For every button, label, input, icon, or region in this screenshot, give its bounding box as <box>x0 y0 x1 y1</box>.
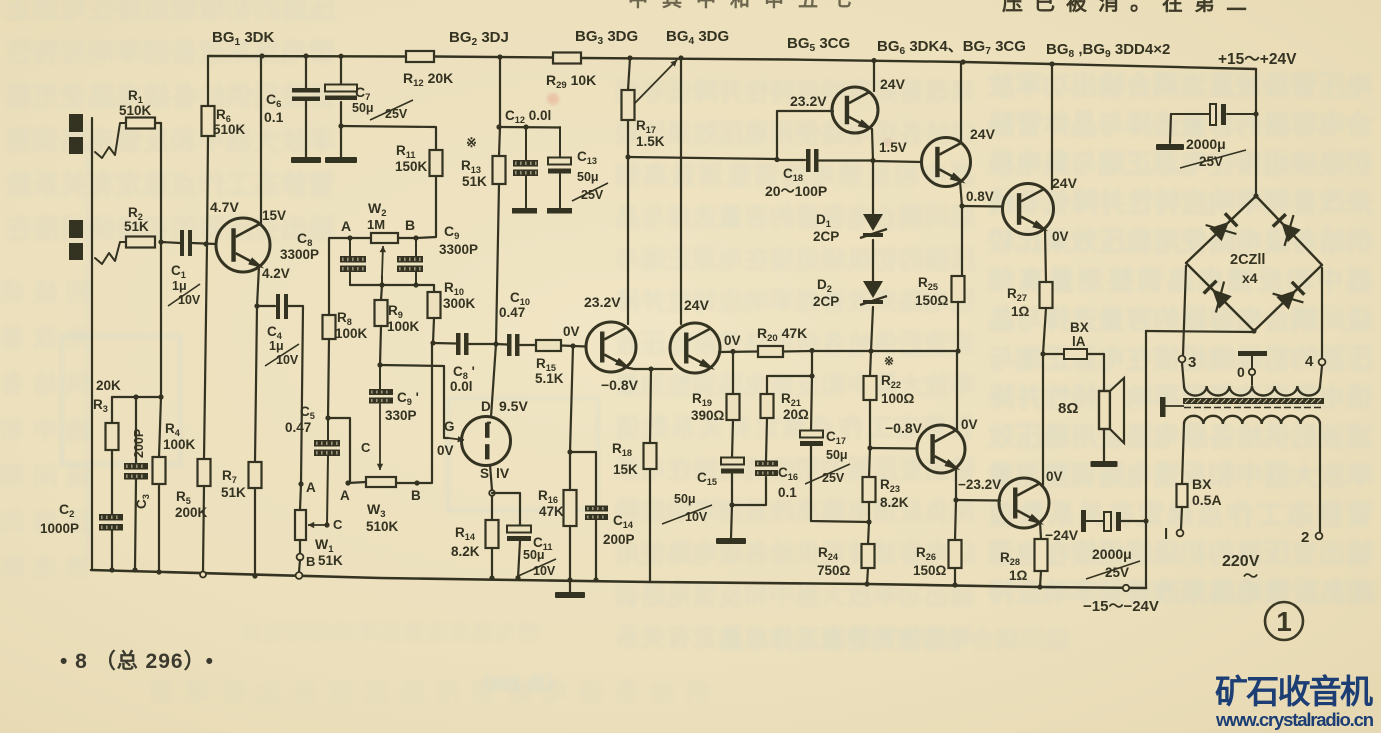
slash 2000u lower <box>1086 561 1140 579</box>
wire R20 left <box>783 350 812 353</box>
svg-text:10V: 10V <box>533 564 556 578</box>
junction C9 bottom <box>413 282 418 287</box>
capacitor C11 plate2 <box>507 536 531 541</box>
svg-text:20Ω: 20Ω <box>783 407 809 422</box>
wire D2 node to R22 <box>870 351 871 376</box>
svg-text:3: 3 <box>1188 354 1196 371</box>
capacitor C12 <box>525 127 527 161</box>
terminal 1 <box>1177 530 1184 537</box>
junction W2 A <box>347 235 352 240</box>
wire R1-R2 junction column <box>160 123 162 242</box>
svg-text:级间耦: 级间耦 <box>0 462 90 490</box>
junction C3 <box>133 394 138 399</box>
slash C11 <box>516 559 556 577</box>
wire C2 to bus <box>111 530 113 570</box>
wire R25 to node <box>957 302 959 351</box>
junction rail-C7 <box>338 54 343 59</box>
wire BG3 base node down to R16 <box>570 346 573 452</box>
svg-text:51K: 51K <box>318 553 343 568</box>
ground C7 <box>325 157 357 163</box>
capacitor C17 plate2 <box>800 441 823 446</box>
svg-text:25V: 25V <box>1105 565 1129 580</box>
wire R17 node to C18 node <box>628 157 777 159</box>
svg-text:B: B <box>411 488 421 503</box>
wire neg column <box>1145 331 1147 588</box>
junction R14 bus <box>489 575 494 580</box>
wire emitter to R7 <box>255 306 257 462</box>
junction R24 rail <box>864 581 869 586</box>
resistor R15 <box>536 340 561 351</box>
wire C12 C13 top line <box>499 126 560 129</box>
wire W3 B lead <box>396 482 417 484</box>
junction rail-BG4 <box>678 55 683 60</box>
transistor BG6 <box>922 138 971 187</box>
capacitor C14 plate1 <box>585 506 608 512</box>
wire bridge right to terminal 4 <box>1321 268 1323 358</box>
wire R28 to neg rail <box>1040 571 1041 587</box>
resistor R12 <box>406 51 434 62</box>
wire to R16 <box>569 452 571 490</box>
resistor R4 <box>153 457 166 484</box>
wire terminal 4 to coil <box>1320 366 1322 386</box>
potentiometer W3 <box>366 477 396 487</box>
fuse BX 1A <box>1064 349 1087 359</box>
wire 1.5V node to BG6 base <box>873 161 922 162</box>
wire rail to bridge top <box>1255 69 1257 196</box>
junction C15 C16 gnd <box>729 502 734 507</box>
svg-text:0V: 0V <box>724 333 741 348</box>
wire W2 B lead <box>398 237 416 239</box>
svg-text:率放大器中和反馈电路调整: 率放大器中和反馈电路调整 <box>5 125 335 156</box>
resistor R6 <box>202 106 215 136</box>
wire C7 node to R11 <box>341 126 436 150</box>
diode D2 <box>863 281 883 298</box>
wire BG8 collector to rail <box>1051 64 1053 189</box>
svg-text:100Ω: 100Ω <box>881 391 915 406</box>
resistor R20 <box>758 346 783 357</box>
svg-text:S: S <box>480 466 489 481</box>
svg-text:D: D <box>481 399 491 414</box>
wire C5 node to W3 A <box>328 418 350 483</box>
wire W2 A lead <box>350 237 371 239</box>
svg-text:BX: BX <box>1070 320 1089 335</box>
wire BG6 collector to rail <box>960 62 962 143</box>
svg-text:51K: 51K <box>462 174 487 189</box>
svg-text:级间耦合电容器的容量选择与晶: 级间耦合电容器的容量选择与晶 <box>720 626 1070 654</box>
terminal R5 bus <box>200 572 206 578</box>
wire fuse to terminal 1 <box>1181 507 1182 529</box>
capacitor C18 trimmer <box>806 149 811 172</box>
ground center tap bar <box>1238 351 1267 356</box>
svg-text:0V: 0V <box>1052 229 1069 244</box>
wire W1 A lead <box>300 484 301 510</box>
svg-text:（总 296）: （总 296） <box>471 672 565 695</box>
capacitor C2 <box>99 514 123 521</box>
svg-text:2CP: 2CP <box>813 294 839 309</box>
resistor R7 <box>249 462 262 488</box>
slash C13 <box>572 183 608 201</box>
capacitor C8' <box>456 333 461 355</box>
svg-text:x4: x4 <box>1242 270 1258 286</box>
wire R26 to neg rail <box>954 568 956 585</box>
wire primary right down <box>1319 424 1321 532</box>
wire C14 to bus <box>595 520 597 580</box>
svg-text:25V: 25V <box>385 107 408 121</box>
transistor BG8 <box>1003 184 1054 235</box>
junction 1.5V node <box>870 158 875 163</box>
resistor R29 <box>553 53 581 64</box>
wire to R18 <box>650 369 651 443</box>
junction C7 R11 line <box>338 123 343 128</box>
svg-text:15K: 15K <box>613 462 638 477</box>
terminal 2 <box>1316 533 1323 540</box>
wire to BG8 base <box>962 205 1003 208</box>
junction R22 R23 base <box>867 445 872 450</box>
core end bar <box>1160 397 1166 417</box>
svg-text:150Ω: 150Ω <box>915 293 949 308</box>
ground speaker <box>1091 461 1118 467</box>
svg-text:※: ※ <box>466 135 477 150</box>
svg-text:2CZll: 2CZll <box>1230 252 1265 268</box>
svg-text:中其中和申五七: 中其中和申五七 <box>628 0 866 11</box>
junction rail-BG1 collector <box>259 53 264 58</box>
transistor BG7 <box>917 425 965 473</box>
wire ground bus bottom <box>91 570 1146 588</box>
capacitor C3 <box>124 463 148 470</box>
transformer secondary coil <box>1184 386 1320 396</box>
potentiometer R17 wiper arrow <box>634 60 677 104</box>
bleedthrough figure box <box>62 120 598 560</box>
wire rail to C6 <box>305 56 307 89</box>
svg-text:24V: 24V <box>684 297 710 313</box>
junction C17 R21 <box>809 373 814 378</box>
wire rail to C7 <box>340 56 342 85</box>
svg-text:1M: 1M <box>367 217 385 232</box>
junction R23 C17 R24 <box>866 519 871 524</box>
svg-text:23.2V: 23.2V <box>790 93 827 109</box>
terminal neg rail <box>1123 585 1129 591</box>
junction C3 bus <box>132 567 137 572</box>
svg-text:−23.2V: −23.2V <box>958 477 1001 492</box>
junction base R6 <box>203 241 208 246</box>
svg-text:50μ: 50μ <box>577 170 599 184</box>
junction W2 B <box>413 235 418 240</box>
svg-text:51K: 51K <box>124 219 149 234</box>
junction rail-BG8 <box>1049 61 1054 66</box>
svg-text:47K: 47K <box>539 504 564 519</box>
svg-text:24V: 24V <box>1052 175 1078 191</box>
transformer core <box>1183 398 1324 404</box>
wire D2 to R22 node <box>871 307 873 351</box>
terminal 4 <box>1319 359 1326 366</box>
wire to C18 <box>777 159 805 161</box>
svg-text:50μ: 50μ <box>523 548 545 562</box>
capacitor C16 plate2 <box>755 461 778 467</box>
wire C17 to R23 bottom <box>811 446 869 522</box>
svg-text:馈电路来改善频率响应特性并: 馈电路来改善频率响应特性并 <box>240 620 540 645</box>
potentiometer W2 <box>371 233 398 243</box>
junction R10 C8p W3B <box>430 340 435 345</box>
potentiometer W1 <box>295 510 306 540</box>
svg-text:初级绕组接在电源正端与集电极: 初级绕组接在电源正端与集电极 <box>988 148 1373 179</box>
svg-text:BG3 3DG: BG3 3DG <box>575 28 638 47</box>
wire input shield to ground bus <box>91 118 93 570</box>
svg-text:0V: 0V <box>961 417 978 432</box>
svg-text:9.5V: 9.5V <box>499 398 528 414</box>
capacitor C6 plate1 <box>292 88 320 93</box>
wire R4 to bus <box>158 484 160 572</box>
capacitor C9' <box>379 365 381 389</box>
junction W3 A <box>345 480 350 485</box>
terminal W1 B bus <box>296 572 303 579</box>
svg-text:来改善: 来改善 <box>0 324 90 352</box>
junction source node <box>489 490 495 496</box>
potentiometer W1 wiper arrow <box>308 524 327 526</box>
junction R16 bus <box>567 577 572 582</box>
svg-text:• 8 （总 296）•: • 8 （总 296）• <box>60 649 214 673</box>
junction emitter R18 <box>648 366 653 371</box>
slash C17 <box>805 464 850 484</box>
junction R8 C5 W3A <box>325 415 330 420</box>
svg-text:20K: 20K <box>96 378 121 393</box>
resistor R18 <box>644 443 657 469</box>
svg-text:1: 1 <box>1276 606 1292 637</box>
svg-text:0.1: 0.1 <box>264 109 284 125</box>
junction R26 rail <box>952 582 957 587</box>
svg-text:0.47: 0.47 <box>499 305 525 320</box>
wire C8p to drain node <box>469 343 496 345</box>
transistor BG1 <box>216 218 270 272</box>
capacitor C17 plate1 <box>800 431 823 438</box>
wire BG7 emitter up to R25 node <box>956 352 958 430</box>
svg-text:1Ω: 1Ω <box>1011 304 1030 319</box>
junction rail-BG5 <box>871 58 876 63</box>
junction W1 A <box>298 481 303 486</box>
svg-text:200K: 200K <box>175 505 208 520</box>
svg-text:50μ: 50μ <box>352 101 374 115</box>
svg-text:20～100P: 20～100P <box>765 183 827 199</box>
wire feedback top line <box>112 396 161 398</box>
svg-text:G: G <box>444 419 455 434</box>
svg-text:压器的初级绕组接在电源正端与: 压器的初级绕组接在电源正端与 <box>615 245 975 274</box>
ground C15 <box>716 538 746 544</box>
svg-text:1.5V: 1.5V <box>879 140 907 155</box>
junction BG7 collector R26 BG9 base <box>953 497 958 502</box>
junction C12 <box>523 124 528 129</box>
capacitor C4 <box>276 294 280 319</box>
wire FET source down <box>490 465 492 490</box>
input jack J1 <box>69 114 83 132</box>
diode bridge TR <box>1281 223 1300 243</box>
wire C4 to W1 A <box>288 306 303 484</box>
resistor R23 <box>863 477 876 502</box>
wire C10 to R15 <box>520 344 536 346</box>
wire to R13 <box>499 127 500 156</box>
svg-text:−15～−24V: −15～−24V <box>1083 598 1159 615</box>
wire R25 column top <box>961 206 963 276</box>
wire BG4 emitter to R20 <box>719 350 758 353</box>
svg-text:滤波后供给各级电路使用稳: 滤波后供给各级电路使用稳 <box>5 81 335 112</box>
svg-text:4.2V: 4.2V <box>262 266 290 281</box>
figure number circled 1 <box>1265 602 1303 640</box>
svg-text:10V: 10V <box>178 293 201 307</box>
wire cap to neg column <box>1121 520 1146 522</box>
capacitor C7 plate1 <box>325 85 357 92</box>
transformer primary coil <box>1184 416 1320 424</box>
wire R27 to fuse node <box>1043 308 1046 354</box>
wire to R26 <box>955 500 956 540</box>
wire gate line <box>380 365 448 438</box>
capacitor 2000u 25V lower <box>1081 510 1086 532</box>
wire to R4 <box>159 397 161 457</box>
svg-text:0V: 0V <box>437 443 454 458</box>
junction W3 B <box>414 480 419 485</box>
junction rail-C6 <box>303 53 308 58</box>
wire to C8p <box>433 342 456 345</box>
wire to C17 <box>811 376 812 431</box>
wire to fuse BX1A <box>1043 353 1064 355</box>
wire base node to R5 <box>204 244 207 459</box>
capacitor C13 <box>559 127 561 158</box>
svg-text:50μ: 50μ <box>826 448 848 462</box>
wire W2 A to R8 <box>329 238 350 315</box>
wire BG4 collector column <box>680 58 682 324</box>
bridge rectifier 2CZ11 x4 <box>1186 196 1322 331</box>
wire rail node to C12 node <box>499 57 501 127</box>
junction fuse node <box>1040 351 1045 356</box>
wire gate arrow into FET <box>448 438 464 440</box>
capacitor C15 plate1 <box>721 458 744 465</box>
wire R15 to BG3 base <box>561 346 586 347</box>
svg-text:23.2V: 23.2V <box>584 294 621 310</box>
capacitor C1 <box>180 230 184 256</box>
svg-text:2000μ: 2000μ <box>1092 546 1132 562</box>
svg-text:馈电路: 馈电路 <box>0 554 90 582</box>
wire W3 A lead <box>348 482 366 483</box>
resistor R2 <box>126 237 155 248</box>
junction C14 bus <box>593 577 598 582</box>
wire cap to ground <box>1170 114 1171 143</box>
wire to R3 <box>111 397 113 423</box>
svg-text:51K: 51K <box>221 485 246 500</box>
svg-text:24V: 24V <box>970 126 996 142</box>
junction drain C8p C10 <box>493 341 498 346</box>
capacitor C16 plate1 <box>755 470 778 476</box>
junction D2 R22 <box>868 348 873 353</box>
svg-text:BG4 3DG: BG4 3DG <box>666 28 729 47</box>
wire source node to C11 <box>492 493 520 526</box>
svg-text:电压管极被直流耦合输出功率放: 电压管极被直流耦合输出功率放 <box>987 70 1373 101</box>
capacitor C12 bottom plate <box>512 208 537 214</box>
wire top rail segment left <box>208 55 406 58</box>
junction rail-BG6 <box>960 59 965 64</box>
svg-text:www.crystalradio.cn: www.crystalradio.cn <box>1215 709 1374 730</box>
wire rail to R17 <box>628 58 630 90</box>
wire top rail segment right <box>581 58 1256 69</box>
junction R19 <box>730 349 735 354</box>
wire R21 up <box>766 376 768 394</box>
svg-text:B: B <box>405 217 415 233</box>
svg-text:A: A <box>340 488 350 503</box>
junction R4 bus <box>156 569 161 574</box>
junction C11 bus <box>515 575 520 580</box>
svg-text:2: 2 <box>1301 529 1309 546</box>
resistor R11 <box>430 150 443 176</box>
junction rail-R13 node <box>497 54 502 59</box>
wire C3 to bus <box>135 479 136 570</box>
wire R22 to base node <box>869 400 871 448</box>
wire R9 to 0V node <box>380 326 381 365</box>
wire W1 B lead <box>299 540 301 554</box>
wire R16 to bus <box>569 526 571 580</box>
wire bridge neg to column <box>1146 331 1254 332</box>
junction R1 R2 C1 <box>158 239 163 244</box>
transformer center tap 0 <box>1251 376 1253 385</box>
transistor BG2 FET <box>462 417 511 466</box>
potentiometer W2 wiper arrow <box>382 246 383 276</box>
wire C16 to R21 <box>766 418 767 460</box>
potentiometer R17 <box>622 90 635 120</box>
transistor BG3 <box>586 322 636 372</box>
slash 2000u upper <box>1180 150 1246 168</box>
wire R8 to C5 node <box>328 339 329 418</box>
wire to R23 <box>869 448 870 477</box>
junction wiper node <box>379 282 384 287</box>
capacitor C7 plate2 <box>325 96 357 101</box>
junction BG3 base R16 <box>570 343 575 348</box>
resistor R26 <box>949 540 962 568</box>
svg-text:200P: 200P <box>132 429 146 458</box>
wire BG8 emitter to R27 <box>1045 229 1046 282</box>
wire top rail segment mid <box>434 57 553 58</box>
svg-text:330P: 330P <box>385 408 417 423</box>
wire W3 B up to signal node <box>417 344 432 483</box>
wire BG3 collector column <box>627 157 629 324</box>
svg-text:50μ: 50μ <box>674 492 696 506</box>
resistor R28 <box>1035 539 1048 571</box>
transistor BG5 <box>832 87 878 133</box>
junction R17 C18 line <box>625 154 630 159</box>
svg-text:供给各级电路使用稳压效果比较: 供给各级电路使用稳压效果比较 <box>615 119 976 148</box>
svg-text:24V: 24V <box>880 76 906 92</box>
wire BG9 collector up to fuse node <box>1042 357 1044 485</box>
svg-text:BG5 3CG: BG5 3CG <box>787 35 850 54</box>
svg-text:0.8V: 0.8V <box>966 189 994 204</box>
svg-text:0.0l: 0.0l <box>450 379 473 394</box>
wire terminal 3 to coil <box>1182 363 1184 386</box>
wire drain node to C10 <box>496 343 507 346</box>
svg-text:B: B <box>306 554 315 569</box>
wire input node down <box>160 242 162 397</box>
svg-text:750Ω: 750Ω <box>817 563 851 578</box>
wire R18 to neg rail <box>649 469 651 582</box>
junction C12 line <box>496 124 501 129</box>
svg-text:1000P: 1000P <box>40 521 79 536</box>
svg-text:矿石收音机: 矿石收音机 <box>1215 673 1373 710</box>
resistor R16 <box>564 490 577 526</box>
wire to R19 <box>732 352 734 395</box>
diode bridge BR <box>1276 290 1296 310</box>
diode bridge BL <box>1212 289 1232 309</box>
svg-text:150K: 150K <box>395 159 428 174</box>
wire C6 to ground bar <box>305 101 307 157</box>
wire source to R14 <box>491 496 493 520</box>
capacitor C11 plate1 <box>507 526 531 533</box>
wire C14 branch <box>570 452 596 506</box>
junction C18 base line <box>774 157 779 162</box>
wire BG9 emitter to R28 <box>1040 522 1041 539</box>
svg-text:25V: 25V <box>822 471 845 485</box>
